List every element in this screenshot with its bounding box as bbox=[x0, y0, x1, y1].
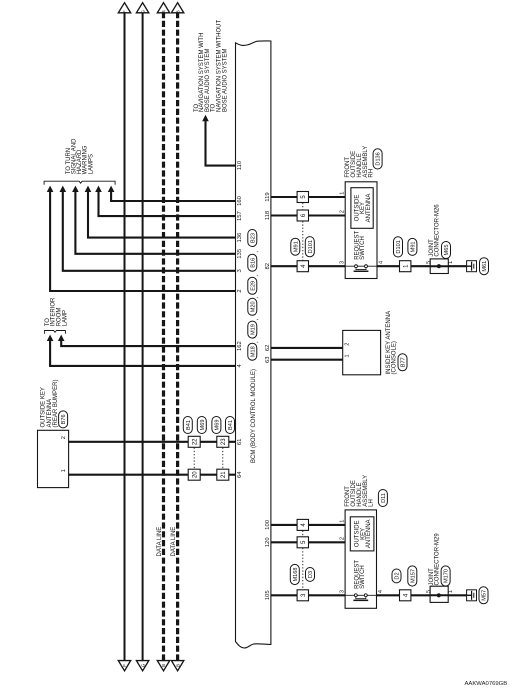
wire turn-signal arrow 1 to BCM row bbox=[47, 186, 236, 291]
svg-text:63: 63 bbox=[265, 356, 271, 363]
svg-text:3: 3 bbox=[339, 590, 345, 593]
wire BCM pin 82 to RH request switch pin 3 bbox=[271, 265, 345, 267]
pin 2 of RH assembly bbox=[340, 210, 346, 213]
svg-text:3: 3 bbox=[340, 261, 346, 264]
outside key antenna box RH bbox=[351, 188, 373, 229]
pin 3 of RH assembly bbox=[340, 261, 346, 264]
wire BCM pin 62 to B77 pin 2 bbox=[271, 347, 343, 349]
inline connector pin 4 (LH ground wire) bbox=[400, 590, 411, 601]
svg-text:F: F bbox=[122, 10, 127, 13]
svg-text:LH: LH bbox=[369, 499, 375, 507]
BCM left-side terminal numbers bbox=[237, 160, 243, 478]
svg-text:B: B bbox=[175, 10, 180, 13]
svg-text:1: 1 bbox=[345, 354, 351, 357]
label REQUEST SWITCH (RH) bbox=[355, 230, 367, 259]
label FRONT OUTSIDE HANDLE ASSEMBLY RH bbox=[345, 146, 375, 178]
label INSIDE KEY ANTENNA (CONSOLE) bbox=[386, 311, 398, 375]
svg-text:105: 105 bbox=[265, 590, 271, 601]
dotted link pins 5-3 bbox=[302, 548, 304, 590]
svg-text:M61: M61 bbox=[482, 261, 488, 272]
svg-text:M91: M91 bbox=[293, 241, 299, 252]
svg-text:2: 2 bbox=[345, 343, 351, 346]
wire turn-signal arrow 2 to BCM row bbox=[60, 186, 236, 271]
connector oval M65 bbox=[442, 242, 451, 259]
wire turn-signal arrow 5 to BCM row bbox=[95, 186, 235, 217]
svg-text:61: 61 bbox=[237, 439, 243, 446]
svg-text:119: 119 bbox=[265, 192, 271, 201]
label BCM (BODY CONTROL MODULE) bbox=[251, 369, 257, 463]
svg-text:136: 136 bbox=[237, 232, 243, 243]
svg-text:D3: D3 bbox=[308, 571, 314, 578]
svg-text:M170: M170 bbox=[444, 569, 450, 583]
connector oval B41 (row 61 left) bbox=[183, 417, 192, 434]
wire B76 pin2 to BCM pin 61 bbox=[69, 441, 236, 443]
svg-text:21: 21 bbox=[221, 471, 227, 478]
wire BCM pin 118 to RH antenna pin 2 bbox=[271, 214, 351, 216]
connector oval M91 (after RH assembly) bbox=[408, 238, 417, 255]
inline connector pin 4 (LH row 100) bbox=[297, 519, 308, 530]
inline connector pin 4 (RH row 82) bbox=[297, 261, 308, 272]
label TO INTERIOR ROOM LAMP bbox=[45, 297, 69, 326]
svg-text:M19: M19 bbox=[250, 324, 256, 335]
svg-text:M57: M57 bbox=[482, 590, 488, 601]
label FRONT OUTSIDE HANDLE ASSEMBLY LH bbox=[345, 475, 375, 507]
wire BCM pin 100 to LH antenna pin 1 bbox=[271, 524, 350, 526]
svg-text:2: 2 bbox=[340, 210, 346, 213]
pin 5 of joint connector M26 bbox=[426, 261, 432, 264]
svg-text:LAMP: LAMP bbox=[63, 310, 69, 326]
figure code AAKWA0769GB bbox=[465, 681, 508, 687]
svg-text:B: B bbox=[175, 664, 180, 667]
svg-text:160: 160 bbox=[237, 195, 243, 206]
pin 1 of LH assembly bbox=[339, 520, 345, 523]
pin 3 of LH assembly bbox=[339, 590, 345, 593]
ground M61 symbol bbox=[467, 261, 477, 272]
svg-text:B76: B76 bbox=[61, 414, 67, 424]
node page connector triangle top x=163.5 bbox=[157, 3, 169, 14]
connector oval D3 (above pin3 LH) bbox=[306, 568, 315, 582]
ground oval M61 bbox=[480, 258, 489, 275]
label DATA LINE (bus 4) bbox=[171, 527, 177, 557]
joint connector M26 box bbox=[430, 259, 448, 274]
outside key antenna box LH bbox=[350, 517, 374, 551]
svg-text:SWITCH: SWITCH bbox=[360, 565, 366, 589]
svg-text:B23: B23 bbox=[250, 233, 256, 243]
dotted link pins 6-4 bbox=[302, 221, 304, 260]
wire bus line 3 (CAN data line, dashed) bbox=[162, 12, 165, 662]
svg-text:DATA LINE: DATA LINE bbox=[157, 527, 163, 557]
svg-text:M168: M168 bbox=[293, 568, 299, 582]
BCM right-side terminal numbers bbox=[265, 192, 271, 600]
svg-text:M69: M69 bbox=[214, 420, 220, 431]
svg-text:D101: D101 bbox=[396, 240, 402, 253]
wire turn-signal arrow 3 to BCM row bbox=[72, 186, 235, 254]
wire LH switch pin 4 to ground bbox=[377, 594, 467, 596]
svg-text:4: 4 bbox=[378, 590, 384, 593]
node page connector triangle bottom x=163.5 bbox=[157, 661, 169, 671]
ground oval M57 bbox=[479, 587, 488, 604]
pin 2 of B77 bbox=[345, 343, 351, 346]
wire to navigation system (pin 110) bbox=[202, 115, 235, 166]
inline connector pin 22 bbox=[188, 436, 200, 447]
svg-text:2: 2 bbox=[61, 436, 67, 439]
svg-text:1: 1 bbox=[340, 192, 346, 195]
pin 1 of B77 bbox=[345, 354, 351, 357]
request switch contacts RH bbox=[354, 265, 369, 272]
pin 1 of B76 bbox=[61, 469, 67, 472]
svg-text:5: 5 bbox=[426, 590, 432, 593]
svg-text:LAMPS: LAMPS bbox=[88, 154, 94, 174]
pin 1 of joint connector M26 bbox=[448, 261, 454, 264]
pin 4 of RH assembly bbox=[378, 261, 384, 264]
svg-text:82: 82 bbox=[265, 263, 271, 270]
svg-text:22: 22 bbox=[192, 438, 198, 445]
svg-text:20: 20 bbox=[192, 471, 198, 478]
inline connector pin 5 (LH row 120) bbox=[297, 537, 308, 548]
svg-text:M65: M65 bbox=[444, 245, 450, 256]
svg-text:CONNECTOR-M29: CONNECTOR-M29 bbox=[435, 533, 441, 586]
wire RH switch pin 4 to ground bbox=[377, 265, 467, 267]
svg-text:ANTENNA: ANTENNA bbox=[366, 519, 372, 548]
connector oval B76 bbox=[59, 411, 68, 428]
svg-text:B: B bbox=[161, 10, 166, 13]
dotted link pins 22-20 bbox=[193, 448, 195, 469]
svg-text:1: 1 bbox=[61, 469, 67, 472]
connector oval M69 (row 61 second left) bbox=[212, 417, 221, 434]
svg-text:B41: B41 bbox=[186, 420, 192, 430]
pin 2 of LH assembly bbox=[339, 537, 345, 540]
svg-text:23: 23 bbox=[221, 438, 227, 445]
connector oval M91 (above pin4 RH) bbox=[291, 238, 300, 255]
svg-text:G: G bbox=[140, 10, 145, 14]
svg-text:118: 118 bbox=[265, 210, 271, 220]
inline connector pin 5 (RH row 119) bbox=[297, 192, 308, 203]
svg-text:ANTENNA: ANTENNA bbox=[366, 194, 372, 223]
connector oval D136 bbox=[373, 149, 382, 169]
svg-text:100: 100 bbox=[265, 519, 271, 530]
wire bus line 1 (solid) bbox=[124, 12, 126, 663]
svg-text:5: 5 bbox=[426, 261, 432, 264]
svg-text:1: 1 bbox=[339, 520, 345, 523]
connector oval M69 (row 61 right) bbox=[197, 417, 206, 434]
svg-text:B: B bbox=[161, 664, 166, 667]
label DATA LINE (bus 3) bbox=[157, 527, 163, 557]
connector oval B41 (row 61 second right) bbox=[226, 417, 235, 434]
svg-text:D136: D136 bbox=[376, 152, 382, 165]
connector oval D101 (after RH assembly) bbox=[394, 237, 403, 257]
label TO TURN SIGNAL AND HAZARD WARNING LAMPS bbox=[66, 138, 95, 174]
BCM (BODY CONTROL MODULE) box bbox=[236, 41, 271, 648]
svg-text:120: 120 bbox=[265, 537, 271, 548]
svg-text:RH: RH bbox=[369, 169, 375, 178]
dotted link pins 4-5 bbox=[302, 531, 304, 537]
svg-text:D101: D101 bbox=[308, 240, 314, 253]
wire BCM pin 119 to RH antenna pin 1 bbox=[271, 196, 351, 198]
svg-text:M157: M157 bbox=[410, 569, 416, 583]
inline connector pin 20 bbox=[188, 469, 200, 480]
wire BCM pin 105 to LH request switch pin 3 bbox=[271, 594, 345, 596]
joint connector M29 box bbox=[430, 586, 448, 602]
inline connector pin 21 bbox=[217, 469, 229, 480]
dotted link pins 23-21 bbox=[222, 448, 224, 469]
inside key antenna (console) box bbox=[343, 330, 381, 374]
svg-text:157: 157 bbox=[237, 211, 243, 221]
inline connector pin 6 (RH row 118) bbox=[297, 210, 308, 221]
svg-text:1: 1 bbox=[448, 261, 454, 264]
svg-text:62: 62 bbox=[265, 345, 271, 352]
svg-text:135: 135 bbox=[237, 248, 243, 259]
svg-text:M69: M69 bbox=[200, 420, 206, 431]
svg-text:F: F bbox=[122, 664, 127, 667]
connector oval M157 (after LH assembly) bbox=[408, 566, 417, 586]
BCM connector ovals (M18),(M19),(M20),(E29),(B16),(B23) bbox=[248, 230, 260, 361]
svg-text:2: 2 bbox=[237, 289, 243, 292]
wire bus line 4 (CAN data line, dashed) bbox=[176, 12, 179, 662]
wire turn-signal arrow 6 to BCM row bbox=[108, 186, 236, 201]
svg-text:BCM (BODY CONTROL MODULE): BCM (BODY CONTROL MODULE) bbox=[251, 369, 257, 463]
svg-text:M91: M91 bbox=[410, 241, 416, 252]
svg-text:E29: E29 bbox=[250, 281, 256, 291]
wire inside RH assembly (switch row) bbox=[345, 265, 377, 267]
inline connector pin 23 bbox=[217, 436, 229, 447]
svg-text:ANTENNA: ANTENNA bbox=[47, 399, 53, 428]
svg-text:G: G bbox=[140, 663, 145, 667]
connector oval D101 (above pin4 RH) bbox=[305, 237, 314, 257]
svg-text:OUTSIDE KEY: OUTSIDE KEY bbox=[41, 387, 47, 427]
outside key antenna (rear bumper) box bbox=[38, 430, 69, 487]
svg-text:B41: B41 bbox=[228, 420, 234, 430]
wire turn-signal arrow 4 to BCM row bbox=[85, 186, 236, 238]
connector oval B77 bbox=[398, 354, 407, 371]
connector oval M170 bbox=[441, 566, 450, 586]
wire BCM pin 120 to LH antenna pin 2 bbox=[271, 541, 350, 543]
node page connector triangle top x=124.5 bbox=[118, 3, 130, 14]
label JOINT CONNECTOR-M29 bbox=[429, 533, 441, 586]
node page connector triangle bottom x=142.6 bbox=[136, 661, 148, 671]
svg-text:2: 2 bbox=[339, 537, 345, 540]
wire B76 pin1 to BCM pin 64 bbox=[69, 474, 236, 476]
bracket for turn signal arrows bbox=[44, 181, 115, 185]
svg-text:AAKWA0769GB: AAKWA0769GB bbox=[465, 681, 508, 687]
pin 4 of LH assembly bbox=[378, 590, 384, 593]
node page connector triangle top x=142.6 bbox=[136, 3, 148, 14]
ground M57 symbol bbox=[467, 590, 477, 601]
pin 1 of RH assembly bbox=[340, 192, 346, 195]
bracket for room lamp arrows bbox=[45, 331, 66, 334]
svg-text:64: 64 bbox=[237, 471, 243, 478]
pin 1 of joint connector M29 bbox=[448, 590, 454, 593]
svg-text:DATA LINE: DATA LINE bbox=[171, 527, 177, 557]
wire bus line 2 (solid) bbox=[142, 12, 144, 663]
svg-text:BOSE AUDIO SYSTEM: BOSE AUDIO SYSTEM bbox=[205, 49, 211, 112]
node page connector triangle bottom x=177.6 bbox=[171, 661, 183, 671]
svg-text:B77: B77 bbox=[401, 357, 407, 367]
wire room lamp arrow 2 (pin 162) bbox=[58, 335, 236, 347]
wire inside LH assembly (switch row) bbox=[345, 594, 376, 596]
svg-text:110: 110 bbox=[237, 160, 243, 170]
connector oval M168 (above pin3 LH) bbox=[290, 564, 299, 584]
front outside handle assembly RH box bbox=[345, 182, 377, 279]
request switch contacts LH bbox=[353, 594, 368, 601]
inline connector pin 1 (RH ground wire) bbox=[400, 261, 411, 272]
svg-text:SWITCH: SWITCH bbox=[360, 236, 366, 260]
inline connector pin 3 (LH row 105) bbox=[297, 590, 308, 601]
connector oval D2 (after LH assembly) bbox=[392, 569, 401, 583]
pin 5 of joint connector M29 bbox=[426, 590, 432, 593]
svg-text:M18: M18 bbox=[250, 346, 256, 357]
svg-text:1: 1 bbox=[448, 590, 454, 593]
wire BCM pin 63 to B77 pin 1 bbox=[271, 359, 343, 361]
front outside handle assembly LH box bbox=[345, 510, 376, 608]
dotted link pins 5-6 bbox=[302, 203, 304, 210]
svg-text:B16: B16 bbox=[250, 258, 256, 268]
svg-text:CONNECTOR-M26: CONNECTOR-M26 bbox=[435, 204, 441, 257]
label OUTSIDE KEY ANTENNA (REAR BUMPER) bbox=[41, 379, 59, 427]
svg-text:4: 4 bbox=[378, 261, 384, 264]
svg-text:D2: D2 bbox=[395, 572, 401, 579]
connector oval D11 bbox=[378, 490, 387, 507]
wire room lamp arrow 1 (pin 4) bbox=[47, 335, 236, 366]
svg-text:162: 162 bbox=[237, 341, 243, 351]
svg-text:D11: D11 bbox=[381, 493, 387, 503]
node page connector triangle top x=177.6 bbox=[171, 3, 183, 14]
label REQUEST SWITCH (LH) bbox=[354, 560, 366, 589]
label JOINT CONNECTOR-M26 bbox=[429, 204, 441, 257]
node page connector triangle bottom x=124.5 bbox=[118, 661, 130, 671]
svg-text:(CONSOLE): (CONSOLE) bbox=[392, 341, 398, 374]
svg-text:M20: M20 bbox=[250, 301, 256, 312]
label TO NAVIGATION SYSTEM WITH/WITHOUT BOSE AUDIO SYSTEM bbox=[194, 20, 229, 112]
svg-text:BOSE AUDIO SYSTEM: BOSE AUDIO SYSTEM bbox=[222, 49, 228, 112]
pin 2 of B76 bbox=[61, 436, 67, 439]
